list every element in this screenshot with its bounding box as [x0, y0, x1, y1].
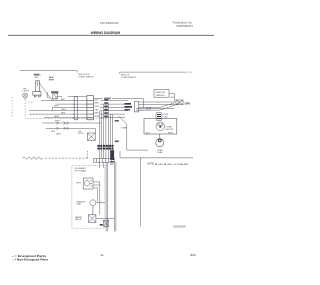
harness verticals [100, 105, 113, 159]
svg-text:WIRING DIAGRAM: WIRING DIAGRAM [91, 31, 121, 35]
svg-text:WHT: WHT [49, 80, 55, 82]
ground plug with X [176, 100, 183, 105]
bus wire 2 [56, 103, 87, 105]
legend energized [12, 255, 49, 261]
wire label on top wire [104, 98, 111, 100]
water valve [88, 215, 114, 223]
note text A [78, 74, 94, 78]
defrost thermostat note box [154, 90, 169, 98]
svg-text:GRN: GRN [56, 134, 61, 136]
note leader line left [20, 71, 78, 73]
svg-text:ORG: ORG [61, 109, 66, 111]
cabinet dashed boundary [12, 97, 108, 118]
compressor motor circle [156, 122, 165, 131]
inline connector pair 2 [135, 102, 139, 112]
note leader line right [120, 72, 193, 74]
top wire from block to compressor [93, 99, 143, 109]
icemaker motor box [83, 178, 93, 189]
svg-text:(EN): (EN) [190, 253, 196, 257]
lone vertical wire [140, 158, 142, 226]
icemaker thermostat [90, 182, 105, 215]
svg-text:VALVE: VALVE [75, 218, 82, 221]
title rule [8, 34, 214, 36]
svg-text:RED: RED [95, 113, 100, 115]
svg-text:YEL: YEL [95, 109, 100, 111]
svg-text:4 WAY: 4 WAY [121, 126, 128, 129]
bottom right plug [103, 220, 108, 226]
pin labels right of block [95, 99, 100, 118]
wire from note box [169, 93, 174, 101]
svg-text:NOTE:: NOTE: [147, 163, 154, 165]
svg-text:STAT: STAT [76, 203, 82, 206]
svg-text:GRN: GRN [54, 116, 59, 118]
bus wire 1 [41, 100, 87, 102]
inline connector pair 1 [73, 97, 78, 120]
svg-text:BLK: BLK [95, 99, 100, 101]
svg-text:WHT: WHT [95, 103, 100, 105]
verticals below strip [100, 162, 116, 231]
svg-text:COMPONENTS: COMPONENTS [121, 77, 137, 79]
icemaker header [74, 167, 86, 172]
bus wire 5 [29, 113, 87, 115]
svg-text:THERMO.: THERMO. [156, 95, 166, 97]
compressor box [144, 118, 177, 134]
note text B [121, 75, 137, 79]
plug labels [78, 131, 84, 135]
run capacitor [156, 112, 168, 120]
icemaker plug [87, 133, 95, 140]
corner wires [118, 116, 148, 158]
svg-text:WHT: WHT [168, 133, 173, 135]
svg-text:▫ = Non-Energized Parts: ▫ = Non-Energized Parts [12, 258, 49, 261]
svg-text:MTR: MTR [76, 182, 81, 184]
svg-text:BLK: BLK [61, 99, 66, 101]
svg-text:WHT: WHT [55, 121, 60, 123]
dark connector mass [110, 150, 114, 160]
BLK/WHT label [49, 77, 55, 82]
terminal strip [93, 159, 114, 163]
svg-text:BLK: BLK [146, 133, 151, 135]
svg-text:GRN: GRN [95, 116, 100, 118]
bundle side labels [115, 120, 119, 122]
svg-text:FRT18NRGW: FRT18NRGW [100, 21, 119, 25]
svg-text:GRN: GRN [185, 102, 191, 105]
door switch label [34, 75, 41, 79]
bus wire 6 [44, 116, 87, 118]
wires to right section [139, 102, 180, 110]
svg-text:LOAD: LOAD [157, 151, 163, 154]
svg-text:-11-: -11- [100, 253, 105, 257]
svg-text:LIGHT: LIGHT [23, 91, 30, 93]
left pair wires [42, 122, 101, 133]
svg-text:= OPTIONAL PART: = OPTIONAL PART [173, 163, 189, 166]
svg-text:(OPTIONAL): (OPTIONAL) [74, 169, 86, 172]
svg-text:BLK: BLK [171, 97, 176, 99]
water valve label [75, 216, 83, 221]
interior light label [23, 88, 30, 92]
wire from switch to block top [57, 96, 87, 98]
light switch 2 dark bar label [51, 91, 58, 92]
svg-text:MOTOR: MOTOR [166, 129, 174, 131]
defrost heater zigzag [23, 151, 88, 159]
long separator wire [120, 157, 193, 159]
main connector block [87, 96, 94, 120]
svg-text:RED: RED [61, 113, 66, 115]
svg-text:PLUG: PLUG [78, 133, 84, 135]
bus wire 3 [52, 107, 87, 111]
wire color labels [54, 99, 66, 118]
thermostat label [76, 201, 85, 205]
overload protector [156, 134, 164, 147]
wire diagonal from switch to bus [40, 84, 53, 101]
svg-text:5995559547: 5995559547 [173, 226, 187, 229]
compressor feed wire with connectors [136, 107, 174, 110]
door switch body [33, 80, 41, 97]
icemaker dashed box [72, 166, 105, 229]
svg-text:ORG: ORG [95, 106, 100, 108]
interior light lamp [23, 93, 28, 99]
small marks below connector [110, 161, 114, 162]
bus wire 4 [29, 110, 87, 112]
light switch 2 body [47, 92, 57, 101]
plug label [100, 224, 103, 226]
svg-text:SW.: SW. [35, 77, 39, 79]
overload label [157, 150, 163, 154]
wires right of block [100, 101, 128, 118]
svg-text:COMPONENTS: COMPONENTS [78, 76, 94, 78]
wires from motor box [93, 182, 100, 188]
note label small [34, 74, 39, 76]
svg-text:CAP.: CAP. [163, 115, 168, 118]
svg-text:WHT: WHT [54, 106, 59, 108]
extra pin label blobs [104, 99, 108, 117]
svg-text:5995559547: 5995559547 [176, 24, 193, 28]
connector pin text rows (dark) [97, 145, 113, 150]
